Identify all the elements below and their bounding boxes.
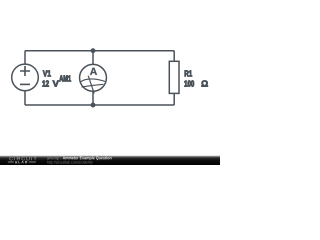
V1 plus sign: [20, 66, 30, 76]
label V1 name: [43, 70, 51, 76]
logo text LAB: [18, 161, 27, 163]
label AM1 name: [59, 75, 71, 81]
label V1 value unit "V": [53, 81, 59, 87]
wire AM1 top lead: [92, 51, 94, 65]
label R1 name: [185, 70, 192, 76]
wire top horizontal: [25, 50, 174, 52]
watermark url: [47, 161, 93, 165]
logo text CIRCUIT: [9, 157, 36, 160]
label R1 value unit ohm: [202, 80, 208, 86]
voltage source V1 body: [12, 64, 39, 91]
wire R1 bottom lead: [173, 93, 175, 105]
wire V1 bottom lead: [24, 91, 26, 105]
wire AM1 bottom lead: [92, 91, 94, 105]
resistor R1 body: [169, 61, 179, 93]
wire bottom horizontal: [25, 104, 174, 106]
wire V1 top lead: [24, 51, 26, 64]
logo LAB row lines: [8, 162, 36, 163]
watermark bar background: [0, 156, 220, 165]
ammeter scale arc lower: [82, 84, 104, 87]
label V1 value "12": [43, 80, 49, 86]
junction node bottom: [91, 103, 96, 108]
V1 minus sign: [20, 83, 30, 85]
label R1 value "100": [185, 80, 195, 86]
watermark circuit title: [63, 156, 112, 160]
logo x mark: [15, 161, 17, 163]
ammeter AM1 body: [80, 64, 107, 91]
wire R1 top lead: [173, 51, 175, 62]
ammeter needle: [88, 76, 94, 94]
watermark username: [47, 156, 61, 160]
ammeter letter A: [90, 68, 97, 75]
ammeter scale arc upper: [80, 79, 106, 82]
junction node top: [91, 48, 96, 53]
